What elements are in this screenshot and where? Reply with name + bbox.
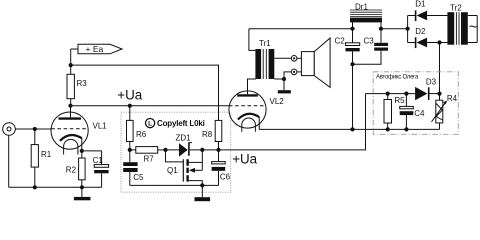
wire D2 tap down to D3 [439, 43, 441, 94]
capacitor C6 [212, 150, 231, 186]
node R6 top [128, 104, 132, 108]
svg-text:+ Ea: + Ea [86, 44, 104, 54]
logo copyleft [146, 119, 155, 128]
svg-text:+Ua: +Ua [117, 88, 142, 103]
wire +Ua rail right [219, 94, 366, 150]
resistor R3 [67, 65, 87, 106]
svg-text:C6: C6 [220, 173, 231, 182]
node Dr1 right [379, 27, 383, 31]
node box ground [200, 183, 204, 187]
node VL1 cathode [80, 149, 84, 153]
svg-text:R5: R5 [394, 96, 405, 105]
wire cathode to C1 [82, 150, 102, 152]
node ground junction [80, 185, 84, 189]
tube VL2 [229, 79, 284, 132]
svg-text:Dr1: Dr1 [355, 2, 368, 11]
ground box [195, 185, 211, 201]
dashed box Copyleft [121, 112, 231, 192]
svg-text:L: L [148, 121, 152, 128]
svg-text:R2: R2 [66, 166, 77, 175]
svg-text:C4: C4 [414, 109, 425, 118]
svg-text:+Ua: +Ua [232, 151, 257, 166]
wire jack down [8, 135, 10, 187]
svg-text:R4: R4 [447, 94, 458, 103]
svg-text:Автофикс Олега: Автофикс Олега [376, 74, 419, 80]
resistor R7 [130, 147, 166, 164]
node ZD1 anode [163, 148, 167, 152]
rheostat R4 [432, 94, 458, 130]
svg-text:C3: C3 [364, 36, 375, 45]
svg-text:R1: R1 [41, 150, 52, 159]
resistor R1 [31, 129, 52, 187]
ground [74, 187, 91, 200]
transformer Tr2 [447, 3, 477, 44]
wire autofix top [366, 93, 416, 95]
svg-text:VL1: VL1 [93, 122, 108, 131]
wire Tr1 secondary top to speaker [274, 57, 291, 59]
svg-text:C1: C1 [93, 156, 104, 165]
node R8 bottom [216, 148, 220, 152]
svg-text:~: ~ [469, 19, 478, 36]
node rectifier [406, 27, 410, 31]
svg-text:D1: D1 [415, 0, 426, 8]
zener ZD1 [166, 133, 203, 156]
svg-text:Tr1: Tr1 [259, 39, 271, 48]
diode D1 [408, 0, 448, 21]
node R1 top [33, 127, 37, 131]
wire drain node to R8 node [202, 149, 218, 151]
+Ea flag [71, 44, 122, 65]
node C4 bottom [404, 127, 408, 131]
wire box bottom [130, 184, 219, 186]
resistor R2 [66, 151, 85, 187]
node C2 bottom [350, 127, 354, 131]
svg-text:C2: C2 [335, 37, 346, 46]
svg-text:D3: D3 [426, 78, 437, 87]
speaker LS [301, 38, 330, 87]
input jack J1 [3, 123, 16, 136]
wire bottom ground rail [9, 186, 102, 188]
svg-text:R7: R7 [144, 154, 155, 163]
capacitor C4 [400, 94, 425, 130]
connector top [291, 56, 297, 62]
capacitor C1 [93, 151, 109, 187]
node R6 bottom [128, 148, 132, 152]
ground speaker [278, 79, 291, 93]
node +Ea [69, 63, 73, 67]
svg-text:C5: C5 [133, 173, 144, 182]
svg-text:ZD1: ZD1 [176, 133, 192, 142]
svg-text:VL2: VL2 [270, 97, 285, 106]
svg-text:D2: D2 [415, 27, 426, 36]
diode D3 [415, 78, 439, 101]
node R5 top [386, 92, 390, 96]
resistor R6 [127, 106, 147, 150]
node VL1 anode [68, 104, 72, 108]
wire Tr1 secondary bottom [274, 78, 284, 80]
node Q1 drain [200, 148, 204, 152]
node speaker ground [282, 77, 286, 81]
svg-text:R8: R8 [202, 130, 213, 139]
node D2 tap [437, 40, 441, 44]
node C4 top [404, 92, 408, 96]
choke Dr1 [350, 2, 382, 28]
node R5 bottom [386, 127, 390, 131]
svg-text:R6: R6 [136, 130, 147, 139]
svg-text:Copyleft L0ki: Copyleft L0ki [157, 119, 205, 128]
node Dr1 left [350, 27, 354, 31]
wire B+ rail [249, 28, 353, 30]
resistor R5 [384, 94, 405, 130]
svg-text:R3: R3 [77, 79, 88, 88]
transistor Q1 [166, 150, 203, 186]
svg-text:Q1: Q1 [167, 166, 178, 175]
tube VL1 [51, 106, 107, 155]
node R1 bottom [33, 185, 37, 189]
node D3 cathode [437, 92, 441, 96]
transformer Tr1 [249, 29, 274, 79]
wire D1 D2 common [407, 16, 409, 43]
capacitor C5 [123, 150, 144, 186]
capacitor C2 [335, 29, 360, 130]
diode D2 [408, 27, 448, 48]
wire VL1 anode to VL2 grid [71, 105, 229, 107]
dashed box Autofix [373, 72, 458, 135]
resistor R8 [202, 120, 222, 149]
svg-text:Tr2: Tr2 [450, 3, 462, 12]
wire A cathode rail [259, 128, 439, 130]
wire +Ea rail to R8 [71, 65, 219, 120]
capacitor C3 [353, 29, 389, 64]
connector bottom [291, 69, 297, 75]
node C2 C3 [350, 62, 354, 66]
wire jack to VL1 grid [15, 128, 51, 130]
